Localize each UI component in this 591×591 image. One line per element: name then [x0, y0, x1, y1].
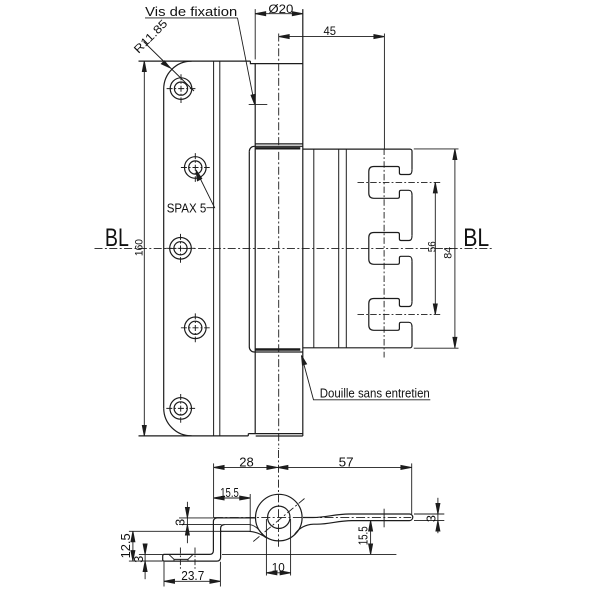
svg-text:3: 3 [173, 519, 188, 526]
dimension 23.7 [164, 562, 220, 587]
knuckle outer circle [255, 494, 302, 541]
barrel (hinge pin cylinder) [248, 9, 302, 436]
right leaf bend line 1 [313, 149, 315, 348]
knuckle axis vertical centerline [278, 450, 280, 548]
svg-text:160: 160 [134, 239, 146, 256]
right leaf (frame leaf) outline with keyhole slots [303, 149, 412, 348]
label: Vis de fixation leader [145, 18, 267, 105]
countersink centerline col A [179, 548, 181, 570]
dimension 57 [277, 463, 411, 514]
hinge axis vertical centerline [278, 34, 280, 450]
countersunk screw hole section [169, 554, 193, 561]
left leaf (door leaf) outline [139, 61, 251, 436]
knuckle horizontal centerline [214, 517, 411, 519]
svg-text:Vis de fixation: Vis de fixation [145, 4, 237, 19]
screw hole 2 [181, 153, 210, 182]
svg-text:BL: BL [105, 224, 129, 252]
screw hole 4 [181, 313, 210, 342]
bore tangent extension left [265, 519, 267, 576]
keyhole slot 1 [369, 167, 412, 199]
svg-text:10: 10 [272, 560, 285, 574]
keyhole slot 2 [369, 233, 412, 265]
dimension 12.5 [129, 531, 222, 561]
slot 3 centerline [358, 313, 441, 315]
left leaf bend line 1 [213, 61, 215, 436]
dimension 15.5 left [214, 494, 251, 531]
knuckle bore circle [268, 506, 290, 528]
dimension 3 middle [179, 502, 222, 543]
dimension 3 right [414, 498, 444, 533]
svg-text:23.7: 23.7 [181, 568, 204, 583]
svg-text:3: 3 [424, 515, 439, 522]
bore tangent extension right [290, 519, 292, 576]
svg-text:BL: BL [463, 224, 489, 252]
right leaf bend line 3 [345, 149, 347, 348]
slot vertical centerline [383, 149, 385, 358]
knuckle diagonal centerline [253, 499, 304, 542]
svg-text:84: 84 [442, 247, 454, 259]
BL horizontal centerline [95, 247, 493, 249]
right leaf bend line 2 [338, 149, 340, 348]
svg-text:3: 3 [131, 556, 146, 563]
keyhole slot 3 [369, 299, 412, 331]
dimension 15.5 right [369, 521, 373, 555]
screw hole 1 [167, 74, 196, 103]
svg-text:15.5: 15.5 [355, 526, 370, 545]
svg-text:56: 56 [426, 241, 438, 252]
label: R11.85 leader [144, 42, 195, 92]
left leaf bend line 2 [219, 61, 221, 436]
frame-leaf sleeve around barrel [249, 146, 302, 352]
label: SPAX 5 leader [196, 170, 215, 208]
svg-text:12.5: 12.5 [118, 533, 133, 558]
bushing (douille) top - thick line [255, 147, 300, 149]
lower plate top extension line to right [222, 553, 396, 555]
svg-text:15.5: 15.5 [220, 485, 239, 500]
label: Douille sans entretien leader [302, 356, 431, 400]
dimension 45 [279, 34, 385, 149]
svg-text:57: 57 [339, 454, 354, 469]
right plate station tick [383, 509, 385, 528]
dimension 3 lower [139, 544, 163, 579]
dimension 28 [214, 463, 278, 518]
screw hole 3 [166, 234, 195, 263]
slot 1 centerline [358, 181, 441, 183]
dimension 56 [433, 182, 437, 314]
sleeve section bottom line [221, 531, 266, 537]
svg-text:28: 28 [239, 455, 254, 470]
dimension 160 [142, 61, 146, 436]
svg-text:Douille sans entretien: Douille sans entretien [320, 386, 430, 401]
door leaf plate with Z-crank and lower plate [163, 518, 256, 561]
sleeve section interface line [225, 525, 263, 535]
dimension 84 [414, 149, 459, 348]
screw hole 5 [166, 394, 195, 423]
bushing (douille) bottom - thick line [255, 348, 300, 350]
svg-text:Ø20: Ø20 [268, 4, 293, 16]
svg-text:SPAX 5: SPAX 5 [167, 201, 207, 215]
countersink centerline col B [194, 548, 196, 570]
svg-text:45: 45 [324, 26, 337, 38]
dimension 10 [266, 571, 290, 575]
dimension D20 [255, 9, 303, 59]
right plate (frame leaf arm) [295, 514, 413, 535]
